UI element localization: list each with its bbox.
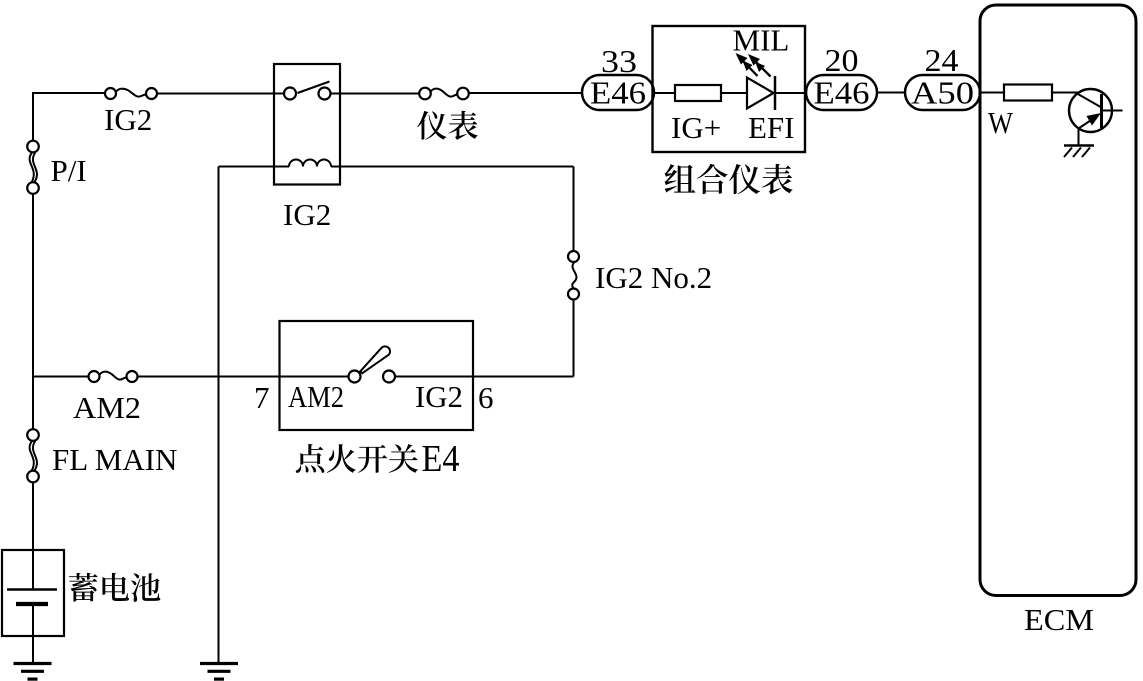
- svg-text:IG2: IG2: [283, 197, 331, 232]
- svg-text:EFI: EFI: [748, 110, 795, 145]
- svg-text:24: 24: [925, 42, 959, 78]
- connector E46 (pin 33): [582, 75, 654, 111]
- ground (ECM, chassis): [1064, 146, 1094, 158]
- relay IG2 box: [274, 64, 340, 185]
- wire: left rail P/I to AM2 junction: [32, 194, 34, 377]
- svg-text:6: 6: [478, 380, 494, 415]
- fuse IG2: [105, 88, 157, 99]
- ground (relay coil): [200, 664, 238, 680]
- resistor IG+: [675, 85, 721, 101]
- wire: relay to instrument fuse: [331, 93, 420, 95]
- wire: AM2 fuse to ignition switch: [138, 376, 349, 378]
- ECM box: [980, 5, 1136, 596]
- svg-text:A50: A50: [911, 75, 974, 111]
- fuse AM2: [89, 371, 138, 382]
- wire: battery negative to ground: [32, 606, 34, 662]
- wire: FL MAIN to battery: [32, 483, 34, 590]
- wire: lamp to box edge: [775, 92, 805, 94]
- svg-text:20: 20: [825, 42, 859, 78]
- relay switch blade: [298, 82, 330, 94]
- wire: top-left corner to IG2 fuse: [32, 92, 105, 94]
- fuse IG2 No.2: [568, 251, 579, 300]
- svg-text:7: 7: [254, 380, 270, 415]
- wire: IG2 fuse to relay: [157, 93, 284, 95]
- ignition switch contact right: [383, 371, 395, 383]
- MIL lamp arrow 2: [748, 54, 771, 77]
- connector A50 (pin 24): [905, 75, 980, 111]
- svg-text:E46: E46: [590, 75, 646, 111]
- wire: left rail AM2 junction to FL MAIN: [32, 377, 34, 430]
- wire: riser bottom segment: [573, 300, 575, 377]
- ignition switch box: [280, 321, 474, 430]
- ignition switch contact left: [349, 371, 361, 383]
- MIL lamp cathode bar: [774, 76, 777, 110]
- battery positive plate: [7, 588, 57, 591]
- wire: instrument fuse to connector E46-33: [469, 92, 583, 94]
- wire: transistor emitter to ground: [1078, 127, 1080, 145]
- battery box: [2, 550, 64, 636]
- wire: coil line left to ground drop: [219, 166, 290, 168]
- svg-text:AM2: AM2: [73, 390, 141, 425]
- ground (battery): [14, 664, 52, 680]
- svg-text:MIL: MIL: [733, 23, 790, 58]
- wire: riser top segment to coil line: [573, 167, 575, 251]
- svg-text:FL MAIN: FL MAIN: [52, 442, 177, 477]
- wire: battery rail to top-left corner: [32, 93, 34, 141]
- svg-text:IG2: IG2: [104, 102, 152, 137]
- resistor (ECM): [1004, 85, 1052, 101]
- wire: coil line through relay to right riser: [331, 166, 574, 168]
- fuse 仪表 (gauge): [419, 88, 469, 100]
- wire: AM2 branch from rail: [33, 376, 89, 378]
- wire: switch IG2 to right riser: [395, 376, 574, 378]
- svg-text:ECM: ECM: [1024, 602, 1094, 637]
- label 仪表: [417, 111, 477, 140]
- fuse P/I: [27, 141, 39, 194]
- wire: meter to connector E46-20: [804, 92, 808, 94]
- MIL lamp diode: [747, 78, 774, 109]
- label 点火开关E4: [296, 438, 460, 480]
- wire: resistor to MIL lamp: [721, 92, 747, 94]
- fuse FL MAIN (fusible link): [27, 429, 39, 482]
- MIL lamp arrow 1: [736, 53, 758, 76]
- connector E46 (pin 20): [806, 75, 877, 111]
- wire: resistor to transistor: [1052, 92, 1078, 94]
- wire: relay coil ground drop: [218, 167, 220, 663]
- combination meter box: [653, 26, 806, 152]
- svg-text:W: W: [988, 105, 1014, 140]
- svg-text:E4: E4: [422, 438, 460, 480]
- transistor Q (MIL driver): [1069, 89, 1123, 132]
- ignition switch lever: [360, 346, 390, 373]
- svg-text:P/I: P/I: [51, 153, 87, 188]
- svg-text:IG2: IG2: [415, 379, 463, 414]
- label 组合仪表: [665, 164, 793, 195]
- relay contact left: [284, 88, 296, 100]
- svg-text:AM2: AM2: [288, 379, 344, 414]
- wire: E46-20 to A50-24: [877, 92, 905, 94]
- battery negative plate: [16, 602, 48, 606]
- svg-text:IG+: IG+: [671, 110, 721, 145]
- relay contact right: [319, 88, 331, 100]
- svg-text:IG2 No.2: IG2 No.2: [595, 260, 712, 295]
- label 蓄电池: [69, 573, 160, 602]
- relay coil: [289, 160, 331, 167]
- wire: A50 into ECM: [980, 92, 1004, 94]
- wire: E46 to resistor IG+: [654, 92, 675, 94]
- svg-text:E46: E46: [814, 75, 870, 111]
